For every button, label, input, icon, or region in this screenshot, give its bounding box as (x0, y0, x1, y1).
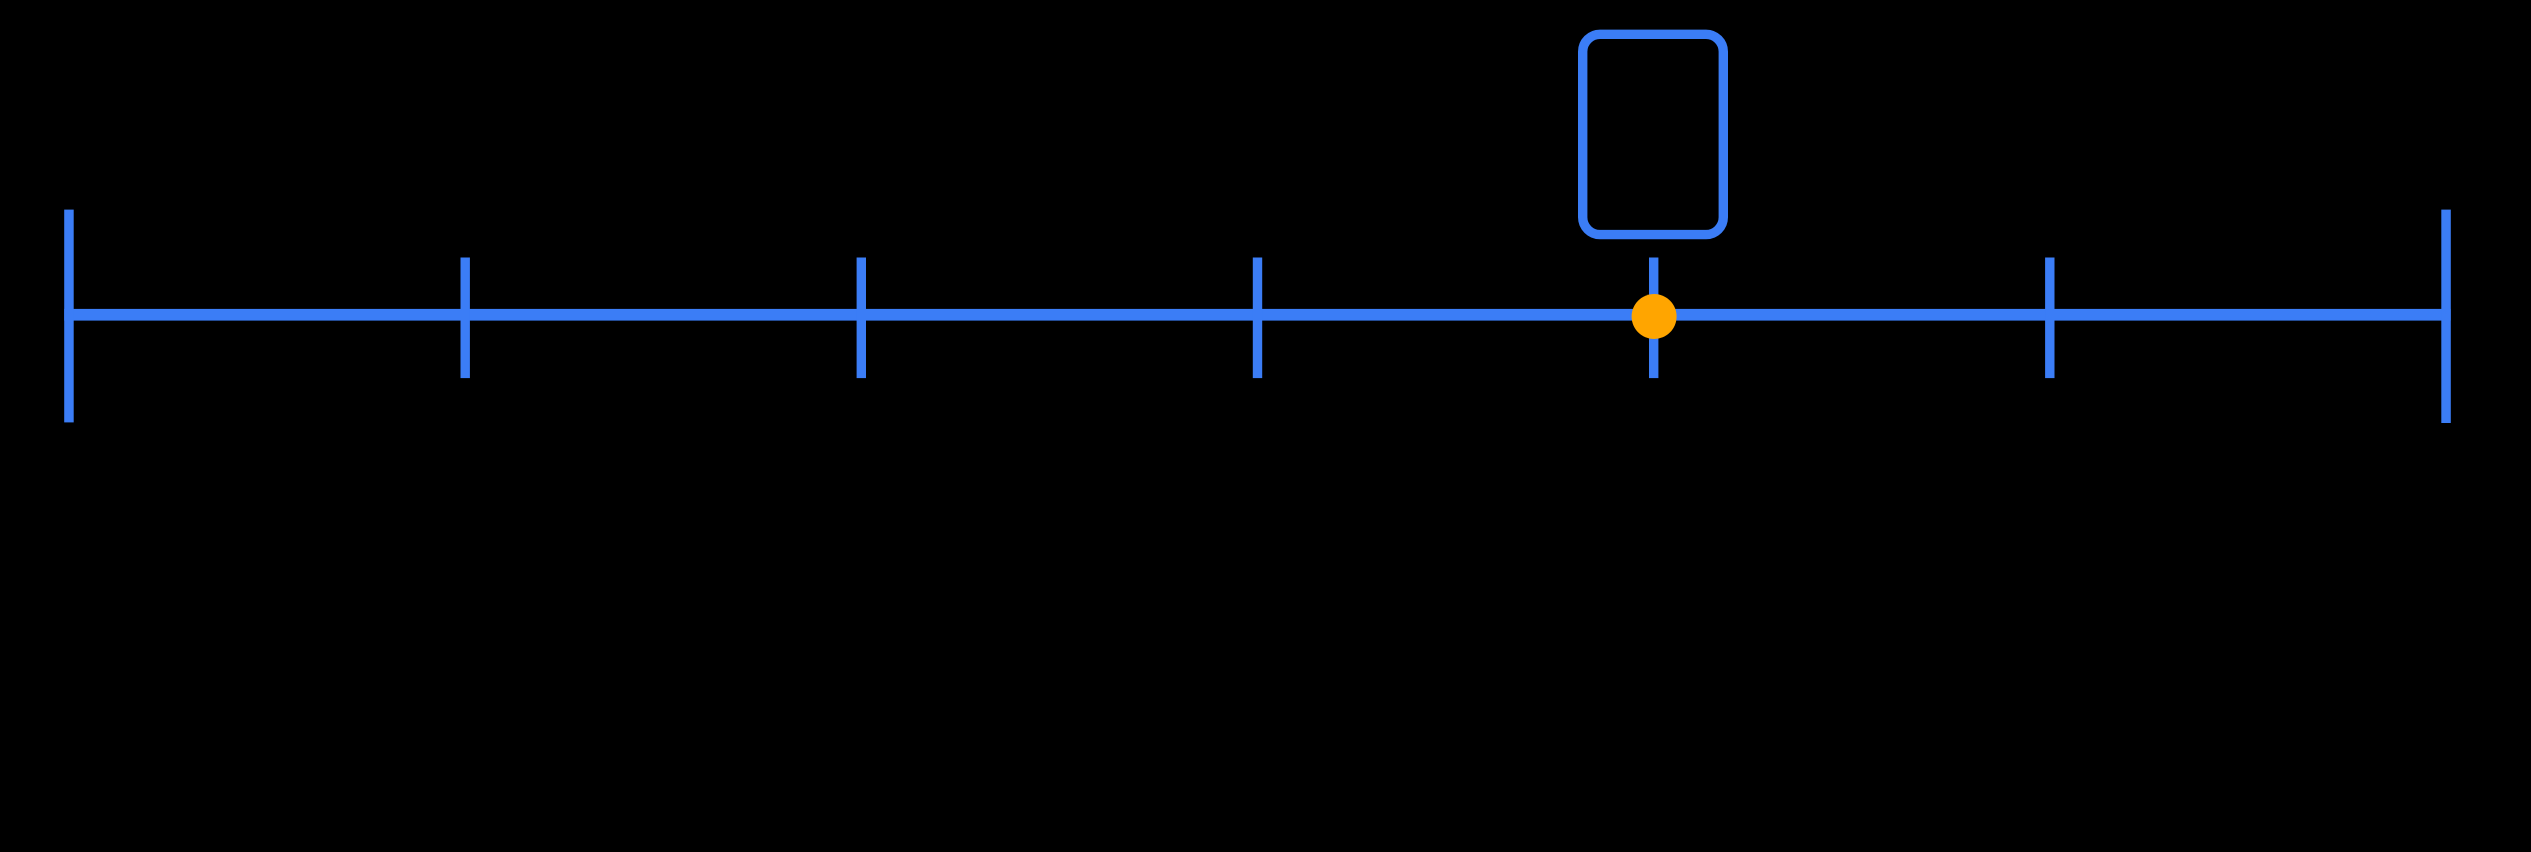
minor tick 4 (point location) (1649, 258, 1658, 379)
answer input box above point (1583, 34, 1724, 234)
number line axis wire (64, 309, 2451, 321)
minor tick 3 (1253, 258, 1262, 379)
minor tick 5 (2045, 258, 2054, 379)
movable point (orange dot) (1632, 294, 1677, 339)
right end tick (max) (2441, 210, 2451, 423)
minor tick 1 (461, 258, 470, 379)
left end tick (min) (64, 210, 74, 423)
minor tick 2 (857, 258, 866, 379)
